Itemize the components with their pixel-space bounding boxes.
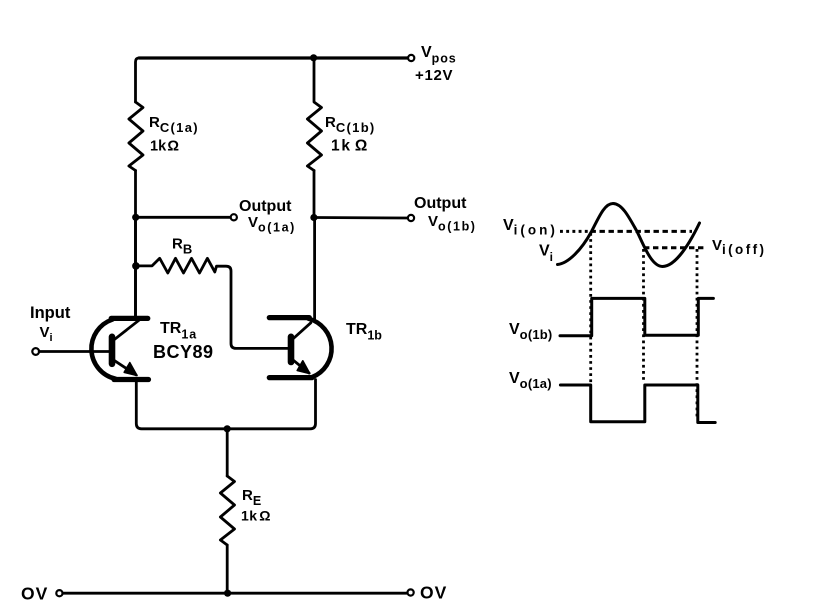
svg-text:+12V: +12V	[415, 67, 453, 84]
wire RE to ground rail	[226, 545, 229, 593]
node RB junction dot	[132, 262, 140, 270]
wire TR1b collector from output node	[313, 218, 316, 320]
waveform Vo(1a) square wave	[560, 385, 715, 423]
svg-text:1k Ω: 1k Ω	[241, 508, 271, 524]
node output 1b junction dot	[310, 214, 317, 221]
transistor TR1a collector diagonal	[114, 320, 140, 340]
waveform Vi sine curve	[558, 204, 700, 267]
dotted vertical timing line 1	[589, 233, 592, 383]
wire left rail RC(1a) to TR1a collector	[134, 171, 137, 317]
resistor RC(1a)	[129, 102, 143, 171]
wire left rail output node to RB node to TR1a	[134, 217, 137, 316]
transistor TR1b envelope arc	[309, 319, 332, 378]
wire emitter node to RE	[226, 429, 229, 476]
dotted vertical timing line 3	[696, 249, 699, 419]
transistor TR1a emitter bar	[114, 377, 149, 382]
svg-text:Output: Output	[414, 195, 467, 212]
svg-text:Output: Output	[239, 198, 292, 215]
transistor TR1a envelope arc	[91, 320, 115, 379]
transistor TR1a base bar	[109, 337, 116, 364]
svg-text:1k Ω: 1k Ω	[331, 138, 369, 155]
dotted vertical timing line 2	[642, 249, 645, 383]
node output 1a junction dot	[132, 214, 139, 221]
svg-text:1k Ω: 1k Ω	[150, 139, 179, 155]
transistor TR1b collector diagonal	[293, 323, 311, 339]
transistor TR1b emitter diagonal	[293, 360, 309, 373]
node common emitter junction dot	[224, 425, 231, 432]
wire TR1a emitter down and common emitter bottom wire	[136, 380, 315, 429]
transistor TR1a emitter diagonal	[114, 360, 136, 375]
transistor TR1a emitter arrowhead	[124, 363, 137, 376]
dashed threshold line Vi(on) dotted lead-in	[560, 230, 589, 233]
node bottom rail junction dot	[224, 590, 231, 597]
svg-text:OV: OV	[21, 584, 48, 604]
resistor RE	[220, 476, 234, 545]
wire right rail RC(1b) to output node	[313, 171, 316, 219]
waveform Vo(1b) square wave	[560, 298, 713, 335]
wire top-left corner down	[136, 58, 140, 102]
transistor TR1a collector bar	[111, 316, 148, 321]
wire input lead to TR1a base	[39, 350, 111, 353]
transistor TR1b collector bar	[269, 315, 309, 320]
svg-text:OV: OV	[420, 583, 447, 603]
terminal 0V left open circle	[56, 590, 62, 596]
transistor TR1b base bar	[288, 337, 295, 362]
terminal output 1b open circle	[408, 215, 414, 221]
wire top supply rail	[139, 56, 408, 59]
terminal 0V right open circle	[408, 589, 414, 595]
wire output 1a	[136, 216, 231, 219]
wire output 1b	[314, 216, 408, 219]
transistor TR1b emitter arrowhead	[297, 361, 310, 374]
terminal Vpos open circle	[408, 55, 414, 61]
svg-text:BCY89: BCY89	[153, 342, 214, 362]
resistor RC(1b)	[307, 58, 321, 171]
svg-text:Input: Input	[30, 304, 71, 322]
dashed threshold line Vi(on)	[591, 230, 693, 233]
wire bottom 0V rail	[63, 592, 407, 595]
node junction dot top rail / RC(1b)	[310, 54, 317, 61]
transistor TR1b emitter bar	[269, 375, 312, 380]
dashed threshold line Vi(off)	[644, 246, 707, 249]
terminal output 1a open circle	[231, 214, 237, 220]
terminal input open circle	[32, 348, 39, 355]
resistor RB	[136, 258, 288, 348]
